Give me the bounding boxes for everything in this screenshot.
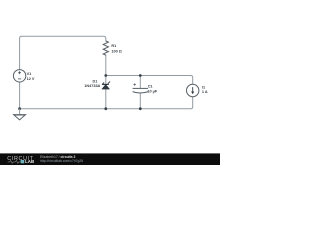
node junction D1 bottom rail [104,107,107,110]
svg-text:10 µF: 10 µF [147,89,157,93]
voltage source V1 [13,70,25,82]
node junction ground/V1/bottom rail [18,107,21,110]
wire V1 bottom to ground node [19,82,21,109]
current source I1 [187,84,199,96]
wire D1 anode to bottom rail [105,89,107,109]
zener diode D1 [102,81,110,89]
wire C1 top lead [139,76,141,89]
wire C1 bottom lead [139,93,141,109]
svg-text:V1: V1 [27,72,32,76]
ground [13,109,27,120]
wire R1 bottom to D1 cathode [105,54,107,83]
svg-text:1 A: 1 A [202,90,208,94]
resistor R1 [103,41,108,55]
svg-text:1N4733A: 1N4733A [84,84,100,88]
node junction R1/D1/middle rail [104,74,107,77]
svg-text:100 Ω: 100 Ω [111,49,121,53]
capacitor C1 [133,83,148,93]
wire middle rail node A to I1 top [106,76,193,85]
wire V1 top to R1 top (left rail + top rail) [20,36,106,69]
wire I1 bottom lead [191,97,193,109]
svg-text:I1: I1 [202,85,205,89]
svg-text:C1: C1 [148,85,153,89]
wire bottom rail [20,108,191,110]
svg-text:R1: R1 [111,44,116,48]
svg-text:12 V: 12 V [27,77,35,81]
svg-text:LAB: LAB [25,159,34,164]
svg-text:http://circuitlab.com/c7h7g26: http://circuitlab.com/c7h7g26 [40,159,83,163]
node junction C1 bottom rail [139,107,142,110]
watermark bar [0,153,220,165]
node junction C1 top [139,74,142,77]
